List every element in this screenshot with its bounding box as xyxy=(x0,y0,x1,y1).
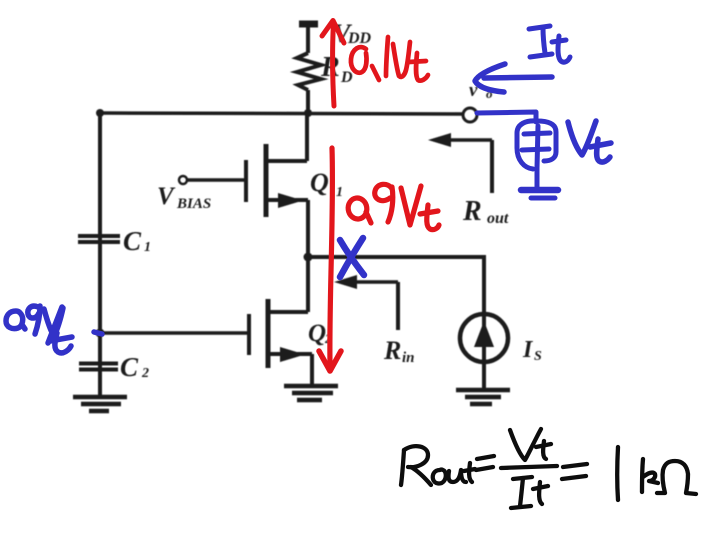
annotation formula Rout = Vt/It = 1 kOhm xyxy=(401,429,696,508)
resistor RD xyxy=(297,53,321,90)
annotation blue Vt label xyxy=(568,121,611,162)
ground below C2 xyxy=(73,397,127,411)
svg-text:V: V xyxy=(157,183,176,210)
svg-text:1: 1 xyxy=(336,185,343,200)
svg-text:C: C xyxy=(123,226,142,256)
node X junction xyxy=(304,253,313,262)
wire Q1 drain up xyxy=(305,113,309,161)
annotation red down arrow through X xyxy=(319,148,341,371)
wire Q2 source to ground xyxy=(310,354,314,385)
wire resistor to node xyxy=(306,90,310,115)
svg-text:DD: DD xyxy=(347,30,372,47)
wire VDD to resistor xyxy=(306,24,310,53)
wire left vertical upper xyxy=(98,113,102,397)
capacitor C1 xyxy=(78,236,120,242)
wire Q1 source to node X xyxy=(306,200,310,257)
svg-text:R: R xyxy=(383,336,401,365)
node gate Q2 xyxy=(96,329,105,338)
svg-text:R: R xyxy=(320,52,340,83)
svg-text:S: S xyxy=(534,349,542,364)
Rout measurement arrow xyxy=(428,133,492,193)
svg-text:I: I xyxy=(522,337,534,363)
svg-text:D: D xyxy=(340,69,353,86)
capacitor C2 xyxy=(79,364,118,370)
VDD supply bar xyxy=(299,21,318,28)
wire VBIAS to gate Q1 xyxy=(187,178,246,182)
svg-text:1: 1 xyxy=(144,240,151,255)
svg-text:2: 2 xyxy=(141,366,149,381)
node junction at drain rail xyxy=(304,109,312,117)
annotation red text 0.1Vt xyxy=(351,37,428,81)
annotation blue It arrow xyxy=(475,64,552,92)
annotation blue It label xyxy=(529,26,570,62)
svg-text:Q: Q xyxy=(308,320,326,347)
annotation red up arrow 0.1Vt current xyxy=(322,21,344,107)
terminal VBIAS xyxy=(179,176,187,184)
wire Q2 drain to node X xyxy=(306,257,310,312)
wire node to gate Q2 xyxy=(100,331,249,335)
svg-text:BIAS: BIAS xyxy=(176,196,211,212)
annotation blue ground of test source xyxy=(521,190,558,198)
transistor Q1 xyxy=(246,144,308,217)
ground below IS xyxy=(456,390,510,404)
wire IS to ground xyxy=(482,362,486,390)
svg-text:C: C xyxy=(120,352,139,382)
output terminal vo xyxy=(463,108,477,122)
transistor Q2 xyxy=(249,299,312,368)
svg-text:in: in xyxy=(402,350,415,366)
ground below Q2 xyxy=(284,386,338,400)
annotation red text 0.9Vt xyxy=(347,184,439,229)
annotation blue 0.9Vt at left node xyxy=(6,306,102,353)
wire top horizontal to output xyxy=(100,113,463,114)
annotation blue wire to test source xyxy=(477,112,536,122)
node corner top-left xyxy=(96,109,104,117)
current source IS xyxy=(460,314,508,362)
svg-text:out: out xyxy=(487,210,509,227)
wire node X to current source xyxy=(308,257,484,316)
Rin measurement arrow xyxy=(334,275,398,330)
svg-text:Q: Q xyxy=(310,168,329,197)
annotation blue test source Vt xyxy=(517,121,556,188)
svg-text:R: R xyxy=(462,196,482,227)
annotation blue X at node xyxy=(340,238,364,277)
